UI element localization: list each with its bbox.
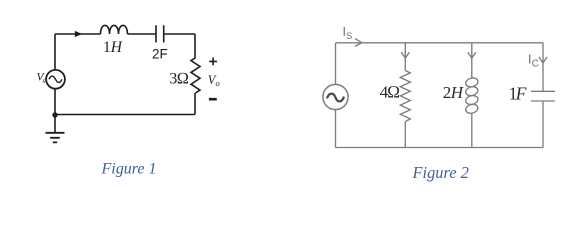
wire left vertical upper	[54, 34, 56, 70]
branch wire 4ohm upper	[404, 43, 406, 71]
svg-text:Vo: Vo	[208, 73, 220, 88]
current source fig2	[323, 84, 348, 109]
wire right vertical upper	[194, 34, 196, 58]
label plus	[209, 58, 217, 66]
label minus	[209, 98, 217, 101]
arrow chevron Ic	[539, 57, 547, 63]
sine symbol inside Vs	[49, 76, 62, 82]
inductor L 1H	[101, 25, 128, 34]
svg-text:Figure 1: Figure 1	[101, 161, 157, 178]
svg-text:1F: 1F	[509, 83, 527, 103]
branch wire 2H lower	[471, 113, 473, 147]
svg-text:Figure 2: Figure 2	[412, 163, 469, 182]
capacitor 1F	[531, 91, 555, 101]
tilde in current source	[327, 94, 343, 102]
svg-text:IS: IS	[343, 25, 353, 42]
svg-text:2H: 2H	[443, 83, 465, 102]
Is arrow chevron	[355, 39, 362, 47]
inductor 2H coil	[465, 77, 479, 88]
svg-text:4Ω: 4Ω	[380, 83, 400, 102]
resistor 4ohm	[400, 71, 410, 122]
wire right vertical lower	[194, 93, 196, 115]
wire inductor to capacitor	[128, 33, 157, 35]
capacitor C 2F	[156, 25, 164, 42]
ground bars	[46, 133, 65, 143]
voltage source Vs	[46, 70, 65, 89]
svg-text:IC: IC	[528, 53, 539, 70]
wire capacitor to corner	[164, 33, 195, 35]
wire left vertical lower fig2	[335, 110, 337, 148]
wire top left segment	[55, 33, 101, 35]
wire right vertical upper fig2	[542, 43, 544, 92]
svg-text:Vs: Vs	[37, 72, 46, 85]
current direction arrow fig1	[75, 31, 82, 37]
node junction dot	[52, 112, 57, 117]
wire bottom fig2	[336, 147, 544, 149]
arrow chevron on 2H branch	[468, 52, 476, 58]
ground stem	[54, 115, 56, 133]
svg-text:2F: 2F	[152, 46, 168, 61]
wire left vertical lower	[54, 89, 56, 115]
arrow chevron on 4ohm branch	[401, 52, 409, 58]
wire right vertical lower fig2	[542, 101, 544, 148]
svg-text:1H: 1H	[103, 39, 123, 56]
svg-text:3Ω: 3Ω	[169, 70, 188, 88]
branch wire 4ohm lower	[404, 122, 406, 148]
wire bottom	[55, 114, 195, 116]
resistor R 3ohm	[191, 58, 200, 93]
wire left vertical upper fig2	[335, 43, 337, 85]
branch wire 2H upper	[471, 43, 473, 78]
wire top fig2	[336, 42, 544, 44]
